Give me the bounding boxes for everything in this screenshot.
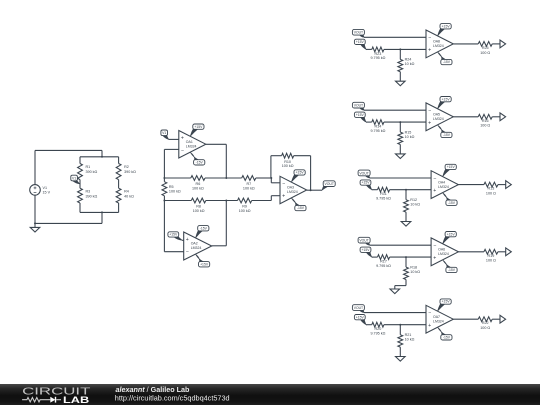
output pin (OA7 stage) [500, 315, 506, 323]
wire VOUT to OA4 minus input [370, 177, 431, 179]
power flag -15V for OA4 [443, 193, 457, 206]
svg-text:10 kΩ: 10 kΩ [405, 337, 415, 341]
wire bottom return to source [35, 222, 102, 224]
svg-text:V1: V1 [162, 131, 166, 135]
output pin (OA6 stage) [506, 248, 512, 256]
resistor R15 [398, 130, 415, 144]
svg-text:+: + [428, 48, 431, 54]
wire left branch upper [79, 157, 81, 164]
svg-text:V1: V1 [43, 186, 48, 190]
node junction at ground [34, 222, 36, 224]
svg-text:LM324: LM324 [186, 144, 197, 148]
wire R11 to junction [390, 189, 406, 191]
ground for source [30, 223, 40, 232]
output pin (OA8 stage) [500, 40, 506, 48]
node junction bottom row mid [225, 200, 227, 202]
footer url [115, 394, 230, 403]
svg-text:-15V: -15V [200, 226, 208, 230]
power flag -15V for OA1 [190, 153, 204, 166]
power label +15V input to OA2 [168, 232, 182, 240]
svg-text:LM324: LM324 [287, 190, 298, 194]
svg-text:100 Ω: 100 Ω [486, 259, 496, 263]
svg-text:V1: V1 [72, 176, 76, 180]
wire R10 top left [271, 155, 282, 157]
resistor R11 [376, 187, 391, 200]
wire OA5 output [453, 116, 478, 118]
wire VOUT to OA8 minus input [364, 36, 426, 38]
wire junction to OA8 plus input [400, 48, 426, 50]
wire OA3 output [307, 189, 322, 191]
svg-text:R15: R15 [405, 130, 412, 134]
wire +15V label to R17 [372, 256, 378, 258]
svg-text:−: − [428, 108, 431, 114]
svg-text:+15V: +15V [356, 40, 365, 44]
ground (OA4 stage) [401, 221, 411, 226]
node junction top row mid [225, 177, 227, 179]
svg-text:+: + [433, 255, 436, 261]
wire junction to OA4 plus input [406, 189, 431, 191]
svg-text:R21: R21 [405, 333, 412, 337]
wire top rail of dividers [80, 156, 119, 158]
svg-text:+: + [433, 188, 436, 194]
wire R18 to ground jog down [405, 280, 407, 286]
svg-text:LM324: LM324 [433, 319, 444, 323]
power label +15V input (OA6 stage) [360, 247, 372, 257]
svg-text:-15V: -15V [196, 161, 204, 165]
CircuitLab logo text CIRCUIT [22, 386, 90, 397]
svg-text:10 kΩ: 10 kΩ [405, 135, 415, 139]
node junction OA5 plus input [399, 121, 401, 123]
svg-text:−: − [433, 176, 436, 182]
power flag -15V for OA8 [438, 52, 452, 65]
svg-text:OA2: OA2 [191, 242, 198, 246]
svg-text:VOUT: VOUT [359, 171, 368, 175]
svg-text:R24: R24 [405, 58, 412, 62]
node junction OA8 plus input [399, 48, 401, 50]
svg-text:+15V: +15V [442, 24, 451, 28]
svg-text:40 kΩ: 40 kΩ [124, 195, 134, 199]
node junction OA6 plus input [405, 256, 407, 258]
wire +15V label to R23 [366, 48, 372, 50]
svg-text:OA5: OA5 [433, 113, 440, 117]
svg-text:LM324: LM324 [438, 252, 449, 256]
resistor R14 [370, 120, 385, 133]
resistor R13 [484, 182, 498, 195]
wire left branch lower [79, 203, 81, 212]
wire top row seg1 [164, 177, 190, 179]
node junction top rail [101, 156, 103, 158]
wire ground jog left [395, 285, 406, 287]
svg-text:+15V: +15V [442, 300, 451, 304]
power label +15V input (OA4 stage) [360, 180, 372, 190]
resistor R22 [478, 317, 492, 330]
svg-text:−: − [181, 148, 184, 154]
ground (OA5 stage) [396, 154, 406, 159]
node label V1 input flag [161, 130, 169, 139]
svg-text:9.795 kΩ: 9.795 kΩ [370, 129, 385, 133]
svg-text:100 kΩ: 100 kΩ [243, 186, 255, 190]
wire OA1 output down to top row [225, 144, 227, 178]
svg-text:+15V: +15V [442, 97, 451, 101]
power flag -15V for OA6 [443, 260, 457, 272]
wire VOUT to OA6 minus input [370, 244, 431, 246]
svg-text:+: + [428, 323, 431, 329]
svg-text:+: + [428, 120, 431, 126]
power flag +15V for OA6 [443, 232, 457, 244]
resistor R20 [370, 322, 385, 335]
node label VOUT input flag (OA8 stage) [352, 29, 364, 37]
wire down from bottom rail [101, 212, 103, 223]
footer author and title [116, 385, 191, 394]
wire R23 to junction [384, 48, 400, 50]
node junction top row left [163, 177, 165, 179]
svg-text:10 kΩ: 10 kΩ [410, 202, 420, 206]
CircuitLab logo icon wire with resistor and diode [22, 397, 61, 403]
wire R15 upper lead [399, 122, 401, 132]
wire +15V label to OA2 plus [182, 239, 184, 241]
wire +15V label to R20 [366, 324, 372, 326]
resistor R18 [404, 265, 421, 279]
svg-text:OA3: OA3 [287, 186, 294, 190]
wire OA8 output [453, 43, 478, 45]
CircuitLab logo text LAB [63, 395, 90, 405]
svg-text:-15V: -15V [448, 201, 456, 205]
power flag +15V for OA8 [438, 24, 452, 36]
wire R24 upper lead [399, 49, 401, 59]
op-amp OA6 [431, 238, 458, 266]
wire R14 to junction [384, 121, 400, 123]
power label +15V input (OA7 stage) [354, 315, 366, 325]
svg-text:LM324: LM324 [191, 246, 202, 250]
ground (OA6 stage) [390, 286, 400, 294]
wire R10 top right [294, 155, 311, 157]
svg-text:+: + [186, 237, 189, 243]
output pin (OA5 stage) [500, 113, 506, 121]
wire source top [34, 150, 36, 184]
svg-text:+15V: +15V [296, 171, 305, 175]
svg-text:R12: R12 [410, 198, 417, 202]
power flag +15V for OA1 [190, 124, 204, 136]
resistor R8 [191, 198, 206, 213]
wire R5 upper lead [163, 178, 165, 182]
svg-text:100 Ω: 100 Ω [480, 124, 490, 128]
wire OA2 output up to bottom row [225, 201, 227, 246]
wire left branch middle [79, 180, 81, 189]
wire into OA3 minus [271, 182, 280, 184]
svg-text:390 kΩ: 390 kΩ [86, 195, 98, 199]
wire R12 lower lead [405, 212, 407, 221]
wire junction to OA7 plus input [400, 324, 426, 326]
wire R24 lower lead [399, 72, 401, 81]
wire OA1 feedback down [163, 149, 165, 178]
wire R22 to output pin [492, 318, 500, 320]
svg-text:15 V: 15 V [43, 191, 51, 195]
op-amp OA5 [426, 103, 453, 131]
svg-text:−: − [428, 35, 431, 41]
svg-text:-15V: -15V [443, 60, 451, 64]
wire right branch lower [118, 203, 120, 212]
wire jog up to OA3 plus [270, 196, 272, 201]
power flag -15V for OA2 [196, 226, 209, 238]
resistor R4 [116, 188, 134, 203]
node label VOUT input flag (OA5 stage) [352, 102, 364, 110]
power flag +15V for OA3 [292, 170, 306, 182]
node junction at OA3 output [310, 189, 312, 191]
svg-text:+15V: +15V [194, 125, 203, 129]
wire R21 lower lead [399, 347, 401, 356]
svg-text:9.795 kΩ: 9.795 kΩ [370, 56, 385, 60]
svg-text:LM324: LM324 [433, 117, 444, 121]
resistor R3 [78, 188, 98, 203]
svg-text:100 kΩ: 100 kΩ [282, 164, 294, 168]
svg-text:100 Ω: 100 Ω [486, 192, 496, 196]
node label V1 flag [71, 175, 80, 184]
svg-text:100 kΩ: 100 kΩ [193, 209, 205, 213]
svg-text:9.795 kΩ: 9.795 kΩ [370, 331, 385, 335]
svg-text:R22: R22 [482, 321, 489, 325]
node junction bottom row left [163, 200, 165, 202]
wire junction to OA5 plus input [400, 121, 426, 123]
wire bottom row seg2 [206, 200, 238, 202]
svg-text:390 kΩ: 390 kΩ [124, 170, 136, 174]
resistor R23 [370, 47, 385, 60]
svg-text:VOUT: VOUT [359, 239, 368, 243]
svg-text:R1: R1 [86, 165, 91, 169]
voltage source V1 [30, 185, 51, 196]
svg-text:LAB: LAB [63, 395, 90, 405]
op-amp OA2 [184, 232, 212, 260]
svg-text:LM324: LM324 [433, 44, 444, 48]
wire bottom row seg3 [252, 200, 272, 202]
wire OA2 output right [212, 245, 227, 247]
wire source bottom [34, 195, 36, 223]
wire +15V label to R11 [372, 189, 378, 191]
footer bar [0, 384, 540, 405]
svg-text:390 kΩ: 390 kΩ [86, 170, 98, 174]
svg-text:R5: R5 [169, 185, 174, 189]
svg-text:100 kΩ: 100 kΩ [239, 209, 251, 213]
svg-text:OA4: OA4 [438, 180, 445, 184]
wire down into top rail [101, 150, 103, 156]
wire R16 to output pin [492, 116, 500, 118]
svg-text:-15V: -15V [443, 133, 451, 137]
resistor R10 [282, 153, 294, 168]
svg-text:R3: R3 [86, 190, 91, 194]
wire R17 to junction [390, 256, 406, 258]
node junction OA4 plus input [405, 189, 407, 191]
power flag -15V for OA7 [438, 328, 452, 341]
wire +15V label to R14 [366, 121, 372, 123]
wire R18 upper lead [405, 257, 407, 267]
resistor R21 [398, 333, 415, 347]
wire R25 to output pin [492, 43, 500, 45]
svg-text:OA8: OA8 [433, 40, 440, 44]
wire V1 label to OA1 plus input [169, 138, 179, 140]
svg-text:100 kΩ: 100 kΩ [192, 186, 204, 190]
resistor R24 [398, 58, 415, 72]
svg-text:LM324: LM324 [438, 185, 449, 189]
power label +15V input (OA8 stage) [354, 39, 366, 49]
svg-text:VOUT: VOUT [354, 31, 363, 35]
svg-text:−: − [282, 181, 285, 187]
ground (OA7 stage) [396, 356, 406, 361]
svg-text:9.795 kΩ: 9.795 kΩ [376, 196, 391, 200]
resistor R19 [484, 249, 498, 262]
resistor R12 [404, 198, 421, 212]
wire R20 to junction [384, 324, 400, 326]
op-amp OA7 [426, 305, 453, 333]
svg-text:10 kΩ: 10 kΩ [410, 270, 420, 274]
wire top row seg3 [256, 177, 271, 179]
svg-text:100 Ω: 100 Ω [480, 326, 490, 330]
svg-text:100 kΩ: 100 kΩ [169, 190, 181, 194]
svg-text:-15V: -15V [448, 268, 456, 272]
svg-text:−: − [428, 310, 431, 316]
svg-text:-15V: -15V [443, 336, 451, 340]
wire top from V1 to divider [35, 149, 102, 151]
wire right branch upper [118, 157, 120, 164]
resistor R5 [162, 182, 181, 196]
svg-text:+15V: +15V [361, 248, 370, 252]
svg-text:R13: R13 [488, 187, 495, 191]
svg-text:-15V: -15V [297, 206, 305, 210]
svg-text:R16: R16 [482, 119, 489, 123]
svg-text:+15V: +15V [361, 181, 370, 185]
wire R10 left vertical [270, 156, 272, 178]
wire bottom row seg1 [164, 200, 191, 202]
power flag -15V for OA3 [292, 198, 307, 211]
node label VOUT output flag [322, 181, 335, 190]
node label VOUT input flag (OA6 stage) [358, 237, 370, 245]
wire right branch middle [118, 180, 120, 189]
svg-text:OA7: OA7 [433, 315, 440, 319]
node junction bottom rail [101, 211, 103, 213]
svg-text:R19: R19 [488, 254, 495, 258]
power flag +15V for OA4 [443, 164, 457, 176]
svg-text:+: + [282, 194, 285, 200]
resistor R6 [191, 176, 205, 191]
svg-text:−: − [433, 243, 436, 249]
svg-text:100 Ω: 100 Ω [480, 51, 490, 55]
power flag +15V for OA5 [438, 97, 452, 109]
wire R13 to output pin [498, 184, 506, 186]
wire OA4 output [458, 184, 484, 186]
wire bottom rail of dividers [80, 211, 119, 213]
wire VOUT to OA5 minus input [364, 109, 426, 111]
svg-text:+: + [181, 136, 184, 142]
wire VOUT to OA7 minus input [364, 312, 426, 314]
resistor R17 [376, 255, 391, 268]
resistor R25 [478, 42, 492, 55]
svg-text:−: − [186, 250, 189, 256]
svg-text:+15V: +15V [356, 315, 365, 319]
svg-text:R25: R25 [482, 46, 489, 50]
resistor R16 [478, 114, 492, 127]
svg-text:VOUT: VOUT [354, 306, 363, 310]
svg-text:R4: R4 [124, 190, 129, 194]
output pin (OA4 stage) [506, 181, 512, 189]
op-amp OA3 [280, 176, 307, 203]
power flag +15V for OA2 [196, 254, 210, 267]
svg-text:R2: R2 [124, 165, 129, 169]
node junction top row right [270, 177, 272, 179]
node label VOUT input flag (OA7 stage) [352, 305, 364, 313]
svg-text:OA6: OA6 [438, 248, 445, 252]
wire R10 right vertical [310, 156, 312, 191]
op-amp OA4 [431, 171, 458, 199]
op-amp OA8 [426, 30, 453, 58]
svg-text:+15V: +15V [200, 262, 209, 266]
svg-text:10 kΩ: 10 kΩ [405, 62, 415, 66]
svg-text:+15V: +15V [356, 113, 365, 117]
power flag +15V for OA7 [438, 299, 452, 311]
node junction OA7 plus input [399, 324, 401, 326]
svg-text:VOUT: VOUT [324, 182, 333, 186]
resistor R7 [242, 176, 256, 191]
wire R12 upper lead [405, 190, 407, 200]
ground (OA8 stage) [396, 81, 406, 86]
resistor R1 [78, 164, 98, 180]
wire into OA3 plus [271, 195, 280, 197]
resistor R2 [116, 164, 136, 180]
svg-text:VOUT: VOUT [354, 104, 363, 108]
svg-text:R18: R18 [410, 265, 417, 269]
op-amp OA1 [179, 131, 206, 159]
wire R21 upper lead [399, 325, 401, 335]
wire R5 lower lead [163, 196, 165, 201]
svg-text:+15V: +15V [447, 165, 456, 169]
wire OA2 minus left [164, 251, 183, 253]
wire OA6 output [458, 251, 484, 253]
wire OA7 output [453, 318, 478, 320]
wire junction to OA6 plus input [406, 256, 431, 258]
svg-text:9.795 kΩ: 9.795 kΩ [376, 264, 391, 268]
svg-text:+15V: +15V [447, 232, 456, 236]
wire jog down to OA3 minus [270, 178, 272, 183]
wire OA2 feedback up [163, 201, 165, 252]
wire OA1 output right [206, 143, 227, 145]
wire R19 to output pin [498, 251, 506, 253]
node label VOUT input flag (OA4 stage) [358, 170, 370, 178]
power label +15V input (OA5 stage) [354, 112, 366, 122]
wire OA1 minus input left [164, 148, 178, 150]
power flag -15V for OA5 [438, 125, 452, 138]
svg-text:OA1: OA1 [186, 140, 193, 144]
svg-text:http://circuitlab.com/c5qdbq4c: http://circuitlab.com/c5qdbq4ct573d [115, 394, 230, 403]
wire R15 lower lead [399, 145, 401, 154]
resistor R9 [238, 198, 252, 213]
svg-text:+15V: +15V [169, 233, 178, 237]
wire top row seg2 [205, 177, 242, 179]
